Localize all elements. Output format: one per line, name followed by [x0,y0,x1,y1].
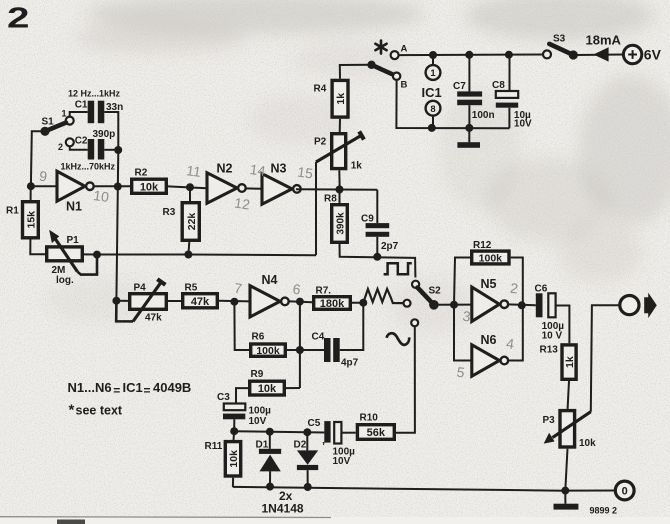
svg-text:15: 15 [296,164,314,182]
svg-text:=: = [113,383,120,397]
svg-text:N1: N1 [66,200,82,214]
svg-text:2: 2 [7,3,30,35]
svg-text:S2: S2 [429,286,442,297]
svg-text:22k: 22k [186,213,198,231]
svg-text:4049B: 4049B [153,380,191,395]
svg-text:B: B [401,80,408,91]
svg-text:1k: 1k [564,356,576,368]
svg-text:9899: 9899 [590,506,610,516]
svg-text:R7.: R7. [316,286,332,297]
svg-text:1k: 1k [351,161,363,172]
svg-text:R13: R13 [540,344,559,355]
svg-text:D1: D1 [256,439,269,450]
svg-text:R5: R5 [185,283,198,294]
svg-text:8: 8 [430,104,435,115]
svg-text:390k: 390k [336,212,347,235]
svg-text:10k: 10k [140,181,159,193]
svg-text:N6: N6 [481,333,497,347]
svg-text:C1: C1 [75,100,88,111]
svg-text:10k: 10k [228,450,240,468]
svg-text:1: 1 [430,68,436,79]
svg-text:390p: 390p [93,129,116,140]
svg-text:A: A [401,44,408,55]
svg-text:C3: C3 [217,392,230,403]
svg-text:C4: C4 [312,331,325,342]
svg-text:=: = [144,383,151,397]
svg-text:R2: R2 [135,168,148,179]
svg-text:100µ: 100µ [249,405,272,416]
svg-text:P4: P4 [134,283,147,294]
svg-text:1k: 1k [335,93,347,105]
svg-text:18mA: 18mA [586,33,622,48]
svg-text:P1: P1 [67,235,80,246]
svg-text:R12: R12 [473,240,492,251]
svg-text:180k: 180k [320,298,345,310]
svg-text:R3: R3 [163,207,176,218]
svg-text:100n: 100n [472,110,495,121]
svg-text:N3: N3 [271,162,287,176]
svg-text:10V: 10V [333,456,351,467]
svg-text:C5: C5 [308,418,321,429]
svg-text:log.: log. [56,275,74,286]
svg-text:56k: 56k [367,427,386,439]
svg-text:10k: 10k [258,383,277,395]
svg-text:’: ’ [322,441,325,453]
svg-text:33n: 33n [106,102,123,113]
svg-text:S1: S1 [42,117,55,128]
svg-text:100k: 100k [256,345,280,357]
svg-text:C7: C7 [453,81,466,92]
svg-text:R1: R1 [6,206,19,217]
svg-text:C9: C9 [361,214,374,225]
svg-text:10: 10 [92,187,110,205]
svg-text:1: 1 [62,109,67,119]
svg-text:R11: R11 [205,441,223,452]
svg-text:IC1: IC1 [123,380,143,395]
svg-text:S3: S3 [553,34,566,45]
svg-text:0: 0 [622,486,628,498]
svg-text:N2: N2 [217,162,233,176]
svg-text:IC1: IC1 [422,85,442,100]
svg-text:47k: 47k [191,296,210,308]
svg-text:15k: 15k [25,211,37,229]
svg-text:12: 12 [233,195,251,213]
svg-text:47k: 47k [145,313,162,324]
svg-text:10k: 10k [579,438,596,449]
svg-text:14: 14 [249,161,267,179]
svg-text:see text: see text [76,403,123,417]
svg-text:N4: N4 [262,273,278,287]
svg-text:R10: R10 [360,412,379,423]
svg-text:D2: D2 [294,439,307,450]
svg-text:P2: P2 [314,136,327,147]
svg-text:N5: N5 [481,277,497,291]
svg-text:6V: 6V [644,47,662,63]
svg-text:10 V: 10 V [542,330,563,341]
svg-text:10V: 10V [249,416,267,427]
svg-text:2: 2 [612,506,617,516]
svg-text:R4: R4 [314,83,327,94]
svg-text:12 Hz...1kHz: 12 Hz...1kHz [68,89,121,99]
svg-text:4p7: 4p7 [341,358,359,369]
svg-text:P3: P3 [543,415,556,426]
svg-text:11: 11 [185,162,202,180]
svg-text:1N4148: 1N4148 [262,502,304,516]
svg-text:N1...N6: N1...N6 [68,380,112,395]
svg-text:R9: R9 [251,369,264,380]
svg-text:100k: 100k [479,253,503,265]
svg-text:2p7: 2p7 [381,241,399,252]
svg-text:C6: C6 [535,283,548,294]
svg-text:C8: C8 [492,80,505,91]
svg-text:*: * [69,401,75,418]
svg-text:C2: C2 [75,136,88,147]
svg-text:R6: R6 [252,332,265,343]
svg-text:1kHz...70kHz: 1kHz...70kHz [61,162,116,172]
svg-text:2: 2 [58,142,63,152]
svg-text:R8: R8 [324,194,337,205]
svg-text:10V: 10V [514,119,532,130]
